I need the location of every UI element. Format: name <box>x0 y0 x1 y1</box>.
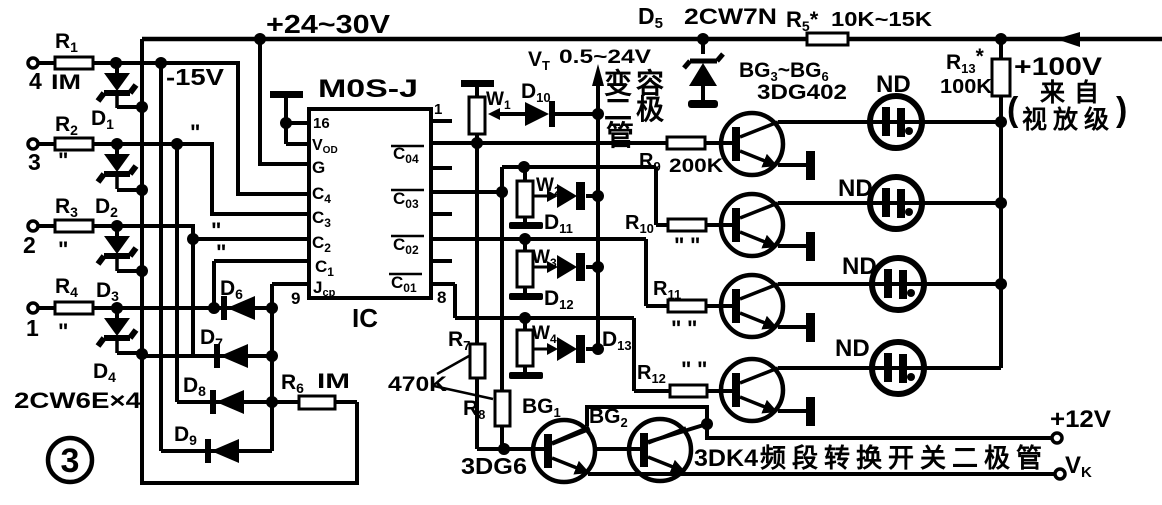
svg-text:200K: 200K <box>669 156 723 177</box>
svg-text:3DG402: 3DG402 <box>757 81 847 104</box>
svg-text:1: 1 <box>26 315 39 341</box>
svg-text:3: 3 <box>28 149 41 175</box>
svg-text:+100V: +100V <box>1014 53 1102 81</box>
svg-text:9: 9 <box>291 289 300 308</box>
svg-text:": " <box>674 233 684 258</box>
svg-text:M0S-J: M0S-J <box>318 75 418 103</box>
svg-text:": " <box>687 316 697 341</box>
svg-text:": " <box>58 237 68 262</box>
svg-text:+24~30V: +24~30V <box>266 9 391 39</box>
svg-text:IC: IC <box>352 303 378 333</box>
svg-text:频段转换开关二极管: 频段转换开关二极管 <box>760 443 1048 473</box>
svg-text:": " <box>58 148 68 173</box>
svg-text:2: 2 <box>23 232 36 258</box>
svg-text:+12V: +12V <box>1050 406 1111 433</box>
svg-text:100K: 100K <box>940 76 993 98</box>
svg-text:": " <box>681 357 691 382</box>
svg-text:3DG6: 3DG6 <box>461 453 527 479</box>
svg-text:0.5~24V: 0.5~24V <box>559 47 651 68</box>
svg-text:管: 管 <box>606 119 634 151</box>
svg-text:2CW7N: 2CW7N <box>684 4 777 29</box>
svg-text:1: 1 <box>434 101 442 118</box>
svg-text:2CW6E×4: 2CW6E×4 <box>14 388 142 413</box>
svg-text:IM: IM <box>51 71 81 94</box>
svg-text:": " <box>697 357 707 382</box>
svg-text:ND: ND <box>835 335 870 362</box>
svg-text:视放级: 视放级 <box>1022 105 1115 134</box>
svg-text:3: 3 <box>61 442 80 480</box>
svg-text:470K: 470K <box>388 373 447 396</box>
svg-text:3DK4: 3DK4 <box>694 445 759 472</box>
svg-text:16: 16 <box>313 115 330 132</box>
svg-text:ND: ND <box>838 175 873 202</box>
svg-text:10K~15K: 10K~15K <box>831 9 933 31</box>
svg-text:": " <box>690 233 700 258</box>
svg-text:(: ( <box>1007 91 1019 129</box>
svg-text:4: 4 <box>29 68 42 94</box>
svg-text:ND: ND <box>876 71 911 98</box>
svg-text:-15V: -15V <box>166 64 225 90</box>
svg-text:": " <box>671 316 681 341</box>
svg-text:": " <box>216 240 226 265</box>
svg-text:来自: 来自 <box>1040 79 1108 107</box>
svg-text:G: G <box>312 158 325 177</box>
svg-text:8: 8 <box>437 288 446 307</box>
svg-text:IM: IM <box>317 370 350 393</box>
svg-text:": " <box>58 319 68 344</box>
svg-text:ND: ND <box>842 253 877 280</box>
svg-text:": " <box>190 120 200 145</box>
svg-text:): ) <box>1116 91 1127 129</box>
